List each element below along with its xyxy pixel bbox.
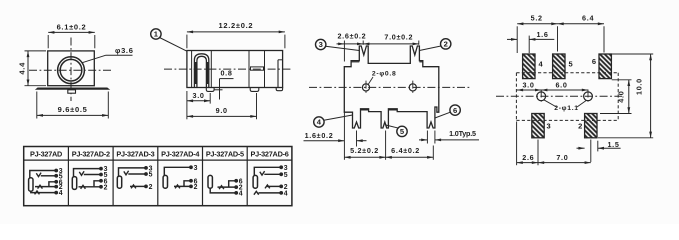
svg-text:1.6±0.2: 1.6±0.2 bbox=[305, 131, 334, 140]
svg-text:5.2±0.2: 5.2±0.2 bbox=[350, 146, 379, 155]
svg-text:PJ-327AD: PJ-327AD bbox=[30, 149, 62, 158]
svg-text:6: 6 bbox=[592, 57, 597, 66]
svg-text:2.6±0.2: 2.6±0.2 bbox=[337, 31, 366, 40]
svg-text:6.4: 6.4 bbox=[582, 13, 594, 22]
svg-text:1.0Typ.5: 1.0Typ.5 bbox=[449, 129, 476, 138]
svg-text:3: 3 bbox=[319, 40, 323, 49]
svg-text:9.0: 9.0 bbox=[216, 106, 228, 115]
svg-text:6.0: 6.0 bbox=[555, 80, 567, 89]
svg-text:5: 5 bbox=[569, 60, 574, 69]
svg-text:10.0: 10.0 bbox=[634, 78, 643, 95]
svg-text:1.5: 1.5 bbox=[607, 140, 619, 149]
svg-text:9.6±0.5: 9.6±0.5 bbox=[58, 105, 88, 114]
svg-text:3: 3 bbox=[547, 121, 552, 130]
svg-text:3.0: 3.0 bbox=[522, 80, 534, 89]
svg-text:3: 3 bbox=[194, 165, 198, 172]
svg-text:7.0±0.2: 7.0±0.2 bbox=[384, 33, 413, 42]
svg-text:PJ-327AD-6: PJ-327AD-6 bbox=[251, 149, 289, 158]
svg-text:2: 2 bbox=[104, 184, 108, 191]
svg-text:2: 2 bbox=[149, 184, 153, 191]
svg-text:5.2: 5.2 bbox=[531, 13, 543, 22]
svg-text:PJ-327AD-3: PJ-327AD-3 bbox=[116, 149, 154, 158]
svg-text:3: 3 bbox=[284, 165, 288, 172]
svg-text:4: 4 bbox=[239, 190, 243, 197]
svg-text:2.6: 2.6 bbox=[522, 153, 534, 162]
svg-text:3.0: 3.0 bbox=[193, 91, 205, 100]
svg-text:4.4: 4.4 bbox=[18, 62, 27, 75]
svg-text:2: 2 bbox=[194, 184, 198, 191]
svg-text:12.2±0.2: 12.2±0.2 bbox=[219, 21, 254, 30]
svg-text:2-φ0.8: 2-φ0.8 bbox=[372, 71, 397, 78]
svg-text:4: 4 bbox=[539, 60, 544, 69]
svg-text:6.4±0.2: 6.4±0.2 bbox=[391, 146, 420, 155]
svg-text:φ3.6: φ3.6 bbox=[115, 46, 134, 55]
svg-text:5: 5 bbox=[284, 172, 288, 179]
svg-text:0.8: 0.8 bbox=[220, 69, 232, 78]
svg-text:PJ-327AD-2: PJ-327AD-2 bbox=[72, 149, 110, 158]
svg-text:6.1±0.2: 6.1±0.2 bbox=[57, 23, 87, 32]
svg-text:4: 4 bbox=[284, 190, 288, 197]
svg-text:4.0: 4.0 bbox=[616, 91, 625, 103]
svg-text:PJ-327AD-4: PJ-327AD-4 bbox=[161, 149, 200, 158]
svg-text:1.6: 1.6 bbox=[536, 30, 548, 39]
svg-text:5: 5 bbox=[149, 172, 153, 179]
svg-text:6: 6 bbox=[453, 106, 457, 115]
svg-text:PJ-327AD-5: PJ-327AD-5 bbox=[206, 149, 244, 158]
svg-text:2: 2 bbox=[578, 121, 583, 130]
svg-text:2-φ1.1: 2-φ1.1 bbox=[554, 105, 579, 112]
svg-text:7.0: 7.0 bbox=[556, 153, 568, 162]
svg-text:4: 4 bbox=[59, 190, 63, 197]
svg-text:2: 2 bbox=[444, 40, 448, 49]
